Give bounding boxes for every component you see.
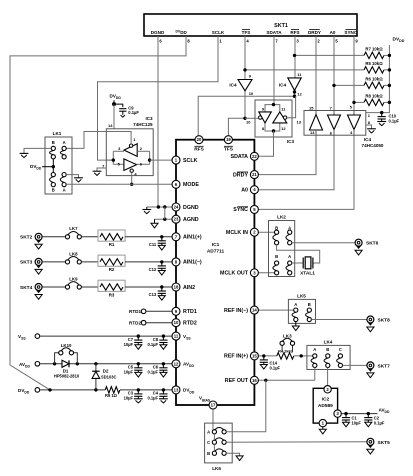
buffer IC4 A0 gate (down) <box>328 111 341 136</box>
svg-text:10: 10 <box>246 119 251 124</box>
svg-text:SCLK: SCLK <box>183 158 198 164</box>
wire V_BIAS to LK6 <box>212 409 214 429</box>
wire DV_DD pull-up rail <box>366 45 390 113</box>
LK6 circles <box>212 430 226 456</box>
LK5 circles <box>294 308 312 322</box>
svg-text:AD7711: AD7711 <box>207 249 225 255</box>
svg-text:SKT8: SKT8 <box>378 318 391 324</box>
wire TFS node to IC1 TFS pin <box>228 118 245 139</box>
wire IC3 internal right node <box>148 151 151 164</box>
ground LK1 A3 <box>66 175 83 182</box>
wire REF OUT row <box>254 379 314 382</box>
wire SYNC from SKT1 pin 9 <box>353 36 355 111</box>
connector SKT1 box <box>144 14 357 36</box>
LK4 circles <box>313 354 343 368</box>
svg-text:LK5: LK5 <box>297 293 306 298</box>
terminal SKT8 <box>367 316 390 332</box>
svg-text:R1: R1 <box>109 242 115 247</box>
wire SDATA node to IC1 SDATA pin <box>254 131 273 156</box>
svg-text:13: 13 <box>297 119 302 124</box>
wire MCLK IN to LK2 <box>254 231 274 233</box>
svg-text:SDATA: SDATA <box>231 154 249 160</box>
svg-text:LK6: LK6 <box>212 466 221 471</box>
buffer IC3 gate2 (right) <box>113 159 149 177</box>
crystal XTAL1 <box>300 257 315 277</box>
IC1 DV_DD pin <box>172 386 195 394</box>
analog input row SKT4 LK9 R3 C13 <box>20 276 176 300</box>
svg-text:IC2: IC2 <box>322 397 330 403</box>
svg-text:B: B <box>207 451 210 456</box>
svg-text:REF IN(+): REF IN(+) <box>224 354 248 360</box>
svg-text:10: 10 <box>249 91 254 96</box>
terminal SKT5 <box>367 438 390 454</box>
svg-text:RTD2: RTD2 <box>183 321 197 327</box>
wire gate4 enable to RFS node <box>287 96 296 118</box>
terminal RTD2 <box>129 320 176 325</box>
svg-text:IC4: IC4 <box>364 137 372 142</box>
svg-text:HP5082-2810: HP5082-2810 <box>54 373 80 378</box>
svg-text:17: 17 <box>211 403 216 408</box>
LK1 jumper arcs <box>50 151 65 183</box>
wire IC3 gate2 enable to MODE line <box>130 172 133 186</box>
wire REF IN+ row <box>254 354 314 357</box>
LK1 circles <box>51 146 66 186</box>
svg-text:R4 2k63: R4 2k63 <box>278 349 294 354</box>
wire SYNC buffer to IC1 SYNC pin <box>254 135 354 209</box>
svg-text:SKT6: SKT6 <box>366 241 379 247</box>
buffer IC4 DRDY gate (up) <box>310 111 323 136</box>
svg-text:10µF: 10µF <box>124 342 134 347</box>
buffer IC3 gate3 (down) <box>246 107 271 131</box>
wire DRDY buffer to IC1 DRDY pin <box>254 135 316 174</box>
svg-text:13: 13 <box>174 387 179 392</box>
wire REF OUT to LK4 A2 <box>314 368 316 381</box>
wire REF IN- to LK5 <box>254 309 293 311</box>
svg-text:IC4: IC4 <box>279 83 287 88</box>
resistor R4 <box>277 349 294 360</box>
link block LK5 box <box>288 293 315 323</box>
svg-text:DRDY: DRDY <box>308 30 321 35</box>
svg-text:IC3: IC3 <box>145 116 153 121</box>
terminal V_SS <box>18 334 40 341</box>
svg-text:C13: C13 <box>149 292 157 297</box>
svg-text:SKT1: SKT1 <box>274 23 288 29</box>
svg-text:R2: R2 <box>109 267 115 272</box>
IC4 4050 pin numbers <box>309 105 371 136</box>
svg-text:B: B <box>52 188 55 193</box>
svg-text:AGND: AGND <box>183 217 199 223</box>
wire SCLK from SKT1 pin 1 <box>98 36 219 160</box>
svg-text:LK4: LK4 <box>324 340 333 345</box>
ground LK5 A2 <box>292 322 299 331</box>
IC1 RFS pin <box>194 136 204 153</box>
svg-text:TFS: TFS <box>224 147 234 153</box>
svg-text:SKT7: SKT7 <box>378 363 391 369</box>
wire gate3 enable to TFS node <box>245 117 259 119</box>
wire MCLK OUT to LK2 <box>254 272 274 274</box>
ground LK1 B1 <box>20 148 52 157</box>
capacitor C9 0.1uF <box>114 104 139 117</box>
svg-text:AIN1(−): AIN1(−) <box>183 260 202 266</box>
LK4 jumper arcs <box>311 358 340 363</box>
link LK3 <box>280 334 295 353</box>
svg-text:A: A <box>288 254 291 259</box>
svg-text:12: 12 <box>297 92 302 97</box>
tri-state buffers IC3 box (gates 3,4) <box>255 100 292 137</box>
svg-text:SKT3: SKT3 <box>20 260 33 266</box>
wire IC3 internal left node <box>106 151 115 164</box>
wire LK4 B2 to IC2 <box>327 368 329 386</box>
link block LK2 box <box>269 215 295 277</box>
capacitor C7 10uF <box>124 336 143 349</box>
LK2 circles <box>275 230 292 275</box>
svg-text:A: A <box>313 347 316 352</box>
svg-text:24: 24 <box>174 205 179 210</box>
ground LK6 B2 <box>226 453 243 460</box>
diode D2 SD103C <box>92 364 116 390</box>
svg-text:IC1: IC1 <box>212 242 220 248</box>
buffer IC4 gate on TFS <box>229 74 254 97</box>
svg-text:15: 15 <box>252 353 257 358</box>
wire TFS buffer output to node <box>244 91 246 119</box>
svg-text:IC4: IC4 <box>229 83 237 88</box>
node RFS junction <box>293 90 296 98</box>
resistor R5 10k on TFS <box>243 61 391 73</box>
svg-text:B: B <box>275 254 278 259</box>
wire LK2 B2 crystal loop <box>277 245 320 263</box>
voltage reference IC2 AD589 box <box>313 388 337 423</box>
capacitor C14 0.1uF <box>260 356 281 370</box>
quad buffer IC3 74HC125 box <box>106 116 153 175</box>
svg-text:R5 10kΩ: R5 10kΩ <box>365 61 383 66</box>
terminal SKT7 <box>367 362 390 378</box>
svg-text:AIN1(+): AIN1(+) <box>183 235 202 241</box>
node TFS junction <box>243 117 246 120</box>
wire TFS from SKT1 pin 4 <box>244 36 246 80</box>
IC1 AV_DD pin <box>172 360 194 368</box>
resistor R6 10k on A0 <box>332 76 391 88</box>
svg-text:A: A <box>294 302 297 307</box>
svg-text:TFS: TFS <box>242 30 251 35</box>
capacitor C6 0.1uF <box>147 364 167 377</box>
svg-text:SKT5: SKT5 <box>378 440 391 446</box>
svg-text:A: A <box>63 140 66 145</box>
svg-text:DGND: DGND <box>183 205 199 211</box>
label V_BIAS <box>199 396 211 403</box>
svg-text:DRDY: DRDY <box>233 172 248 178</box>
LK2 jumper arcs <box>273 234 290 270</box>
svg-text:A0: A0 <box>241 188 248 194</box>
LK6 jumper arcs <box>214 427 224 451</box>
svg-text:SYNC: SYNC <box>344 30 357 35</box>
ground IC4 4050 pin 8 <box>366 125 376 133</box>
buffer IC3 gate1 (left) <box>113 137 149 156</box>
wire RFS node to IC1 RFS pin <box>198 96 294 140</box>
analog input row SKT2 LK7 R1 C11 <box>20 226 176 250</box>
buffer IC3 gate4 (up) <box>273 107 302 131</box>
capacitor C10 0.1uF <box>377 111 399 126</box>
svg-text:C11: C11 <box>149 242 157 247</box>
svg-text:10µF: 10µF <box>124 396 134 401</box>
wire A0 from SKT1 pin 5 <box>333 36 335 111</box>
wire A0 buffer to IC1 A0 pin <box>254 135 334 190</box>
SKT1 pin labels <box>151 30 358 35</box>
svg-text:A0: A0 <box>330 30 336 35</box>
svg-text:SDATA: SDATA <box>266 30 282 35</box>
resistor R8 10k on SYNC <box>352 93 391 105</box>
ground AGND net <box>151 207 176 228</box>
svg-text:LK9: LK9 <box>69 276 78 281</box>
terminal AV_DD <box>19 362 40 369</box>
buffer IC4 gate on RFS <box>279 72 303 97</box>
svg-text:REF IN(−): REF IN(−) <box>224 308 248 314</box>
svg-text:A: A <box>63 188 66 193</box>
terminal DV_DD <box>18 388 40 395</box>
link LK10 <box>55 343 78 364</box>
svg-text:74HC4050: 74HC4050 <box>362 143 384 148</box>
link block LK6 box <box>205 423 233 471</box>
IC2 pin 2 <box>324 386 331 393</box>
label DV_DD top right <box>393 37 405 44</box>
svg-text:XTAL1: XTAL1 <box>300 271 315 277</box>
svg-text:22: 22 <box>252 154 257 159</box>
svg-text:18: 18 <box>174 285 179 290</box>
terminal SKT6 <box>355 239 379 255</box>
svg-text:LK10: LK10 <box>61 343 72 348</box>
hex buffer IC4 74HC4050 box <box>304 111 366 136</box>
svg-text:0.1µF: 0.1µF <box>270 365 281 370</box>
svg-text:21: 21 <box>252 172 257 177</box>
svg-text:23: 23 <box>174 217 179 222</box>
terminal RTD1 <box>129 309 176 314</box>
wire DV_DD from SKT1 pin 8 to left rail <box>10 36 186 390</box>
SKT1 pin numbers <box>159 38 358 43</box>
svg-text:74HC125: 74HC125 <box>133 122 153 127</box>
svg-text:MODE: MODE <box>183 182 199 188</box>
svg-text:DGND: DGND <box>151 30 165 35</box>
svg-text:10µF: 10µF <box>124 370 134 375</box>
svg-text:20: 20 <box>197 137 202 142</box>
ADC IC1 AD7711 box <box>176 140 254 405</box>
IC1 left pins <box>172 156 202 327</box>
resistor R9 1ohm <box>105 387 120 398</box>
svg-text:0.1µF: 0.1µF <box>147 342 158 347</box>
svg-text:0.1µF: 0.1µF <box>128 110 139 115</box>
svg-text:LK8: LK8 <box>69 251 78 256</box>
buffer IC4 SYNC gate (down) <box>348 111 361 136</box>
svg-text:15: 15 <box>309 105 314 110</box>
capacitor C5 10uF <box>124 364 143 377</box>
svg-text:R3: R3 <box>109 292 115 297</box>
svg-text:0.1µF: 0.1µF <box>389 119 400 124</box>
svg-text:AD589: AD589 <box>318 403 333 409</box>
wire DV_DD row <box>40 388 176 391</box>
svg-text:B: B <box>52 140 55 145</box>
IC1 V_SS pin <box>172 332 191 340</box>
wire RFS from SKT1 pin 3 <box>294 36 296 78</box>
wire SDATA from SKT1 pin 7 <box>273 36 275 105</box>
svg-text:B: B <box>326 347 329 352</box>
svg-text:R8 10kΩ: R8 10kΩ <box>365 93 383 98</box>
capacitor C3 10uF <box>124 390 143 403</box>
wire DGND from SKT1 pin 6 <box>157 36 159 207</box>
IC1 V_BIAS pin <box>209 401 217 409</box>
ground IC2 pin 1 <box>319 427 326 434</box>
svg-text:SKT2: SKT2 <box>20 235 33 241</box>
svg-text:C12: C12 <box>149 267 157 272</box>
IC2 pin 1 <box>319 419 326 426</box>
supply DV_DD at IC3 <box>110 94 122 129</box>
svg-text:RFS: RFS <box>290 30 299 35</box>
svg-text:0.1µF: 0.1µF <box>374 420 385 425</box>
wire RFS buffer output down <box>294 90 296 96</box>
svg-text:D2: D2 <box>103 368 109 373</box>
wire LK2 A2 to SKT6 <box>292 242 355 244</box>
svg-text:R9 1Ω: R9 1Ω <box>105 393 118 398</box>
label IC4 74HC4050 <box>362 137 384 148</box>
svg-text:RTD1: RTD1 <box>129 309 141 314</box>
IC2 pin 3 <box>334 410 341 417</box>
diode D1 HP5082-2810 <box>54 360 80 378</box>
svg-text:19: 19 <box>226 137 231 142</box>
svg-text:AIN2: AIN2 <box>183 285 195 291</box>
capacitor C1 10uF <box>342 414 362 427</box>
analog input row SKT3 LK8 R2 C12 <box>20 251 176 275</box>
wire AV_DD row <box>40 362 176 365</box>
svg-text:12: 12 <box>281 126 286 131</box>
wire IC3 gate1 enable to LK1 <box>66 132 131 149</box>
wire IC3 right node to SCLK pin <box>150 159 176 161</box>
svg-text:0.1µF: 0.1µF <box>147 396 158 401</box>
capacitor C2 0.1uF <box>364 414 385 427</box>
svg-text:REF OUT: REF OUT <box>225 378 249 384</box>
LK5 jumper arcs <box>292 312 309 317</box>
svg-text:14: 14 <box>252 308 257 313</box>
svg-text:12: 12 <box>174 361 179 366</box>
svg-text:0.1µF: 0.1µF <box>147 370 158 375</box>
svg-text:LK2: LK2 <box>277 215 286 220</box>
label IC3 for gates box <box>287 139 295 144</box>
ground IC3 pin 7 <box>93 163 107 175</box>
svg-text:RFS: RFS <box>194 147 204 153</box>
svg-text:R7 10kΩ: R7 10kΩ <box>365 46 383 51</box>
svg-text:IC3: IC3 <box>287 139 295 144</box>
svg-text:SYNC: SYNC <box>233 207 248 213</box>
wire V_SS row <box>40 334 176 337</box>
IC1 TFS pin <box>224 136 234 153</box>
svg-text:14: 14 <box>108 123 113 128</box>
svg-text:MCLK OUT: MCLK OUT <box>220 271 249 277</box>
svg-text:10: 10 <box>174 320 179 325</box>
wire IC2 pin 3 to AV_DD <box>342 408 390 416</box>
link block LK1 box <box>45 131 72 194</box>
svg-text:C: C <box>339 347 342 352</box>
wire LK4 C2 to SKT7 <box>343 364 367 366</box>
capacitor C4 0.1uF <box>147 390 167 403</box>
svg-text:SKT4: SKT4 <box>20 285 33 291</box>
wire LK6 C2 to SKT5 <box>226 441 366 443</box>
svg-text:RTD2: RTD2 <box>129 321 141 326</box>
svg-text:MCLK IN: MCLK IN <box>226 230 248 236</box>
svg-text:LK7: LK7 <box>69 226 78 231</box>
svg-text:LK3: LK3 <box>283 334 292 339</box>
wire LK5 B2 to SKT8 <box>311 319 366 321</box>
wire LK6 A2 to REF OUT node <box>226 380 266 432</box>
svg-text:B: B <box>308 302 311 307</box>
resistor R7 10k on RFS <box>293 46 391 58</box>
svg-text:10µF: 10µF <box>352 420 362 425</box>
wire LK2 A3 to crystal <box>292 262 303 264</box>
IC1 right pins <box>220 152 258 384</box>
supply DV_DD at LK1 <box>30 159 55 173</box>
svg-text:16: 16 <box>252 378 257 383</box>
svg-text:SCLK: SCLK <box>212 30 225 35</box>
svg-text:SD103C: SD103C <box>101 375 117 380</box>
capacitor C8 0.1uF <box>147 336 167 349</box>
svg-text:A: A <box>207 430 210 435</box>
wire DRDY from SKT1 pin 2 <box>315 36 317 111</box>
svg-text:11: 11 <box>174 334 179 339</box>
svg-text:LK1: LK1 <box>53 131 62 136</box>
wire LK1 A4 to MODE pin <box>66 183 176 185</box>
ground DGND net <box>142 205 176 213</box>
svg-text:R6 10kΩ: R6 10kΩ <box>365 76 383 81</box>
LK1 column letters <box>52 140 66 193</box>
link block LK4 box <box>307 340 350 370</box>
svg-text:C: C <box>207 440 210 445</box>
LK6 left column chain <box>213 434 215 451</box>
svg-text:14: 14 <box>310 130 315 135</box>
svg-text:RTD1: RTD1 <box>183 309 197 315</box>
